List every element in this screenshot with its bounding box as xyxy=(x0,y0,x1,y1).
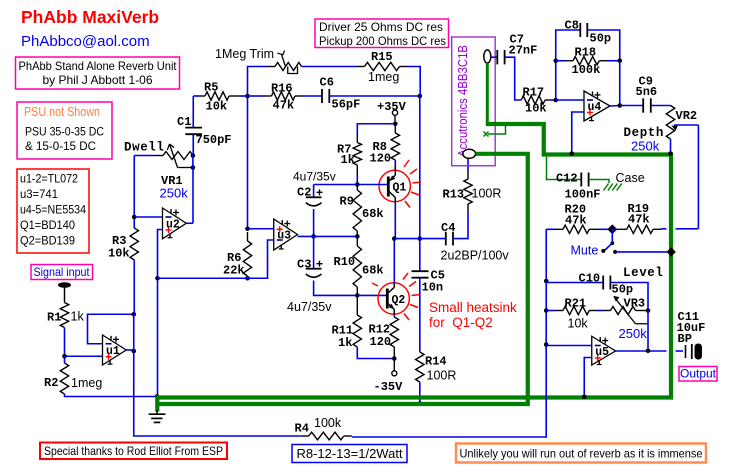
svg-text:56pF: 56pF xyxy=(332,98,361,112)
svg-text:1meg: 1meg xyxy=(71,376,102,390)
wire Q2 base xyxy=(357,294,386,296)
svg-text:R9: R9 xyxy=(340,195,354,209)
wire u1 output xyxy=(126,349,134,351)
svg-text:2u2BP/100v: 2u2BP/100v xyxy=(441,249,510,263)
wire C8 to u4 out xyxy=(587,30,619,61)
driver/pickup note box xyxy=(315,19,449,48)
heat rays Q1 xyxy=(404,160,421,208)
svg-text:1meg: 1meg xyxy=(368,70,399,84)
wire Q midpoint to C4 xyxy=(394,238,446,240)
resistor R15 xyxy=(302,66,357,68)
node u4 output xyxy=(617,103,622,108)
reverb note box xyxy=(456,444,706,463)
capacitor C6 xyxy=(303,95,322,97)
wire u3 inverting input xyxy=(248,240,274,278)
svg-text:u5: u5 xyxy=(595,346,609,359)
wire Q1 base xyxy=(357,184,387,186)
transistor Q2 xyxy=(378,283,409,314)
node VR1 top xyxy=(191,153,196,158)
resistor R5 xyxy=(193,95,199,97)
svg-text:68k: 68k xyxy=(362,207,384,221)
svg-text:1k: 1k xyxy=(338,336,352,350)
svg-text:10k: 10k xyxy=(108,247,130,261)
transistor Q1 xyxy=(379,170,410,201)
node VR2 bottom ground xyxy=(668,151,673,156)
svg-text:by Phil J Abbott 1-06: by Phil J Abbott 1-06 xyxy=(42,73,152,87)
svg-text:100R: 100R xyxy=(427,369,457,383)
svg-text:for Q1-Q2: for Q1-Q2 xyxy=(429,315,493,330)
op-amp u1 xyxy=(103,335,127,365)
wire to -35V terminal xyxy=(393,359,395,371)
svg-text:R17: R17 xyxy=(523,86,545,100)
node R21 tap xyxy=(544,308,549,313)
node main ground xyxy=(155,394,160,399)
wire u5 output xyxy=(616,350,667,352)
svg-text:+35V: +35V xyxy=(377,100,407,114)
wire dwell-net vertical xyxy=(133,156,135,229)
capacitor C1 xyxy=(192,135,194,168)
svg-text:Driver 25 Ohms DC res: Driver 25 Ohms DC res xyxy=(319,20,443,34)
svg-text:68k: 68k xyxy=(362,264,384,278)
svg-text:4u7/35v: 4u7/35v xyxy=(287,300,332,314)
svg-text:u3=741: u3=741 xyxy=(20,187,58,201)
node u5 inverting tap xyxy=(544,342,549,347)
node R15-C6 xyxy=(418,94,423,99)
svg-text:Q1=BD140: Q1=BD140 xyxy=(20,218,75,232)
mute switch xyxy=(611,229,613,243)
node R1-R2-u1 xyxy=(62,354,67,359)
node R20-R19-switch xyxy=(607,224,617,234)
svg-text:PSU not Shown: PSU not Shown xyxy=(24,105,100,119)
svg-text:u4: u4 xyxy=(588,101,602,114)
svg-text:100k: 100k xyxy=(314,416,342,430)
svg-text:PhAbb MaxiVerb: PhAbb MaxiVerb xyxy=(21,7,159,27)
wire C2 top rail xyxy=(314,184,358,186)
svg-text:u4-5=NE5534: u4-5=NE5534 xyxy=(20,203,86,217)
capacitor C8 xyxy=(579,23,581,37)
wire feedback down xyxy=(647,311,649,351)
node R6 bottom xyxy=(245,276,250,281)
svg-text:Unlikely you will run out of r: Unlikely you will run out of reverb as i… xyxy=(460,447,703,461)
svg-text:C4: C4 xyxy=(441,221,455,235)
capacitor C4 xyxy=(445,232,447,246)
resistor R21 xyxy=(546,310,555,312)
svg-text:C2: C2 xyxy=(297,186,311,200)
svg-text:u1: u1 xyxy=(106,345,120,358)
trimpot 1Meg xyxy=(248,67,268,97)
wire u4 noninv to ground xyxy=(572,112,584,153)
svg-text:VR2: VR2 xyxy=(676,109,698,123)
svg-text:Dwell: Dwell xyxy=(124,141,165,155)
wire tank input to C7 xyxy=(491,56,498,58)
svg-text:47k: 47k xyxy=(565,214,587,228)
wire to u4 inverting xyxy=(556,99,584,101)
svg-text:Q1: Q1 xyxy=(393,182,407,195)
svg-text:10k: 10k xyxy=(206,100,228,114)
node R7-R9-C2-Q1base xyxy=(355,182,360,187)
resistor R16 xyxy=(248,95,264,97)
svg-text:4u7/35v: 4u7/35v xyxy=(293,170,336,184)
wire C10 to feedback node xyxy=(610,283,648,311)
svg-text:47k: 47k xyxy=(273,99,295,113)
wire u2 out up to C1 xyxy=(192,168,194,224)
svg-text:PhAbb Stand Alone Reverb Unit: PhAbb Stand Alone Reverb Unit xyxy=(19,59,178,73)
svg-text:R14: R14 xyxy=(425,355,447,369)
node R9-R10 xyxy=(355,234,360,239)
signal input label box xyxy=(31,265,93,280)
wire R20 left xyxy=(546,228,555,230)
wire node down to R6 xyxy=(247,96,249,229)
potentiometer VR2 Depth xyxy=(666,106,674,140)
capacitor C9 xyxy=(642,98,644,112)
wire C10 left xyxy=(546,281,603,283)
wire u2 inverting input xyxy=(134,216,162,218)
node u1 output xyxy=(131,349,136,354)
VR3 wiper xyxy=(615,298,636,324)
svg-text:R18: R18 xyxy=(575,46,597,60)
svg-text:10n: 10n xyxy=(422,281,444,295)
svg-text:Accutronics 4BB3C1B: Accutronics 4BB3C1B xyxy=(456,45,470,157)
svg-text:R21: R21 xyxy=(565,297,587,311)
svg-text:Signal input: Signal input xyxy=(34,265,91,279)
node u5 ground xyxy=(582,395,587,400)
svg-text:250k: 250k xyxy=(631,139,660,154)
wire +35V rail left xyxy=(357,124,395,135)
svg-text:750pF: 750pF xyxy=(196,133,232,147)
wire u4 output xyxy=(610,105,620,108)
potentiometer VR1 Dwell xyxy=(134,155,155,157)
svg-text:100k: 100k xyxy=(572,63,601,77)
wire u4 feedback left xyxy=(556,30,581,100)
svg-text:27nF: 27nF xyxy=(509,44,538,58)
ground wire from tank input xyxy=(486,63,489,124)
wire R1 to u1 noninverting input xyxy=(64,328,66,357)
capacitor C10 xyxy=(602,276,604,290)
resistor R9 xyxy=(356,185,358,191)
resistor R14 xyxy=(416,352,424,382)
wire R3 to u1 net xyxy=(134,260,301,436)
svg-text:Output: Output xyxy=(680,367,717,381)
ground bus stub xyxy=(155,396,159,412)
svg-text:Pickup 200 Ohms DC res: Pickup 200 Ohms DC res xyxy=(319,34,446,48)
reverb tank box xyxy=(452,37,496,166)
wire u4 out to C9 xyxy=(620,105,643,107)
resistor R8 xyxy=(394,124,396,133)
node +35V rail xyxy=(393,121,398,126)
svg-text:10k: 10k xyxy=(568,317,589,331)
-35V terminal xyxy=(392,371,397,376)
svg-text:Mute: Mute xyxy=(571,244,599,258)
resistor R11 xyxy=(356,295,358,315)
node R14 to ground bus2 xyxy=(418,401,423,406)
node R10-R11-Q2base xyxy=(355,293,360,298)
node u1 feedback xyxy=(131,312,136,317)
resistor R13 xyxy=(467,204,469,212)
svg-text:Small heatsink: Small heatsink xyxy=(429,300,517,315)
svg-text:Special thanks to Rod Elliot F: Special thanks to Rod Elliot From ESP xyxy=(44,444,223,458)
thanks box xyxy=(40,443,227,460)
svg-text:C12: C12 xyxy=(556,172,578,186)
node u2 inverting xyxy=(132,215,137,220)
wire Q2 collector up xyxy=(393,239,395,283)
capacitor C5 xyxy=(419,239,421,271)
resistor R6 xyxy=(247,232,249,241)
info box: stand alone reverb unit xyxy=(16,57,180,89)
svg-text:C8: C8 xyxy=(565,19,579,33)
svg-text:C6: C6 xyxy=(320,76,334,90)
wire u2 output xyxy=(186,222,193,224)
svg-text:PhAbbco@aol.com: PhAbbco@aol.com xyxy=(21,33,150,50)
svg-text:Q2: Q2 xyxy=(392,294,406,307)
resistor R18 xyxy=(556,60,565,62)
wire u3 output rail xyxy=(298,235,358,237)
svg-text:PSU 35-0-35 DC: PSU 35-0-35 DC xyxy=(25,125,104,139)
svg-text:5n6: 5n6 xyxy=(636,85,658,99)
svg-text:R10: R10 xyxy=(334,255,356,269)
svg-text:VR3: VR3 xyxy=(624,297,646,311)
svg-text:Level: Level xyxy=(623,266,664,280)
node u5out-feedback xyxy=(646,349,651,354)
svg-text:250k: 250k xyxy=(619,326,648,341)
wire center vertical down xyxy=(419,96,421,239)
node u4 ground xyxy=(569,151,574,156)
node R18 right xyxy=(617,58,622,63)
node C10 tap xyxy=(544,279,549,284)
capacitor C3 xyxy=(313,236,315,268)
svg-text:50p: 50p xyxy=(612,283,634,297)
capacitor C11 xyxy=(685,345,687,358)
wire Q1 collector down xyxy=(394,203,396,239)
node VR1 wiper xyxy=(191,165,196,170)
+35V terminal xyxy=(392,110,397,115)
svg-text:R4: R4 xyxy=(295,422,309,436)
resistor R10 xyxy=(356,236,358,246)
wire R7 to base rail xyxy=(356,176,358,185)
wire mute to ground xyxy=(615,251,671,253)
svg-text:-35V: -35V xyxy=(374,380,404,394)
wire u5 inverting input xyxy=(546,345,592,347)
wire C9 to VR2 xyxy=(651,105,671,107)
svg-text:22k: 22k xyxy=(223,264,245,278)
op-amp u3 xyxy=(274,219,298,250)
capacitor C2 xyxy=(313,185,315,198)
svg-text:C10: C10 xyxy=(579,272,601,286)
svg-text:R15: R15 xyxy=(371,50,393,64)
PSU note box xyxy=(17,102,112,159)
capacitor C12 xyxy=(580,173,582,187)
wire ground to C12 xyxy=(547,157,582,180)
heat rays Q2 xyxy=(403,273,408,280)
wire Q2 emitter down xyxy=(393,315,395,317)
svg-text:R16: R16 xyxy=(271,82,293,96)
svg-text:100R: 100R xyxy=(472,187,502,201)
node R6 top - u3 noninverting xyxy=(245,226,250,231)
svg-text:BP: BP xyxy=(678,332,692,346)
resistor R2 xyxy=(64,356,66,363)
wire +35V to node xyxy=(394,115,396,123)
resistor R12 xyxy=(390,317,398,347)
main ground symbol xyxy=(156,410,158,414)
capacitor C7 xyxy=(496,50,498,64)
svg-text:C3: C3 xyxy=(297,258,311,272)
resistor R1 xyxy=(60,303,68,328)
resistor R3 xyxy=(130,228,138,260)
svg-text:R2: R2 xyxy=(44,376,58,390)
node R11-R12 xyxy=(392,356,397,361)
signal input terminal xyxy=(58,282,71,288)
svg-text:& 15-0-15 DC: & 15-0-15 DC xyxy=(25,139,96,153)
wire R13 to tank output xyxy=(467,159,469,172)
wire R15 to node xyxy=(408,67,421,97)
svg-text:R13: R13 xyxy=(443,188,465,202)
wire Q1 emitter up xyxy=(394,160,396,166)
potentiometer VR3 xyxy=(597,310,603,312)
wire u1 feedback xyxy=(88,314,134,344)
svg-text:250k: 250k xyxy=(160,186,189,201)
resistor R19 xyxy=(612,228,618,230)
wattage note box xyxy=(292,445,407,463)
wire u5 noninv to ground xyxy=(584,358,592,397)
resistor R17 xyxy=(521,96,545,104)
node Q1-Q2 midpoint xyxy=(392,236,397,241)
node u3out-C2 xyxy=(311,234,316,239)
svg-text:120: 120 xyxy=(370,335,392,349)
tank input transducer xyxy=(484,50,491,63)
node R5-R16-trim xyxy=(245,94,250,99)
wire R2 to ground bus xyxy=(65,394,158,397)
parts list box xyxy=(17,169,89,253)
resistor R4 xyxy=(301,435,309,437)
wire u4out node down xyxy=(619,61,621,106)
svg-text:u2: u2 xyxy=(166,218,180,231)
op-amp u5 xyxy=(592,336,616,365)
svg-text:47k: 47k xyxy=(628,213,650,227)
case ground symbol xyxy=(604,184,609,191)
svg-text:R8-12-13=1/2Watt: R8-12-13=1/2Watt xyxy=(296,446,402,461)
svg-text:1Meg Trim: 1Meg Trim xyxy=(215,47,274,61)
svg-text:10k: 10k xyxy=(525,102,547,116)
VR2 wiper xyxy=(674,124,698,126)
node C4 left xyxy=(418,236,423,241)
ground wire from tank output xyxy=(156,154,528,404)
svg-text:Q2=BD139: Q2=BD139 xyxy=(20,234,75,248)
wire C7 to R17 xyxy=(505,57,522,100)
ground sense wire with x xyxy=(488,126,506,134)
output label box xyxy=(679,367,717,382)
wire R19 to VR2 wiper net xyxy=(661,228,667,230)
resistor R7 xyxy=(356,135,358,143)
svg-text:50p: 50p xyxy=(590,32,612,46)
wire R20net down xyxy=(352,229,546,437)
svg-text:120: 120 xyxy=(370,152,392,166)
svg-text:1k: 1k xyxy=(341,153,355,167)
svg-text:C1: C1 xyxy=(177,115,191,129)
wire u2 noninv to ground net xyxy=(158,230,163,279)
svg-text:100nF: 100nF xyxy=(565,188,601,202)
svg-text:1k: 1k xyxy=(71,310,85,324)
svg-text:u1-2=TL072: u1-2=TL072 xyxy=(20,172,78,186)
wire VR2 wiper down xyxy=(697,125,699,229)
svg-text:R1: R1 xyxy=(47,311,61,325)
svg-text:u3: u3 xyxy=(277,230,291,243)
svg-text:R5: R5 xyxy=(204,81,218,95)
node R18 left xyxy=(553,58,558,63)
resistor R20 xyxy=(555,228,563,230)
wire ground net to R6 bottom xyxy=(158,277,248,279)
node R17-u4 inverting xyxy=(553,98,558,103)
tank output transducer xyxy=(463,149,476,158)
svg-text:Case: Case xyxy=(616,171,645,185)
wire u3 noninverting input xyxy=(248,228,274,230)
wire ground net down xyxy=(157,278,159,396)
node mute ground xyxy=(667,247,676,256)
op-amp u2 xyxy=(163,208,187,239)
node u2 ground net xyxy=(155,276,160,281)
wire C12 to case ground xyxy=(589,180,609,184)
node VR3 right xyxy=(646,308,651,313)
op-amp u4 xyxy=(584,91,610,121)
